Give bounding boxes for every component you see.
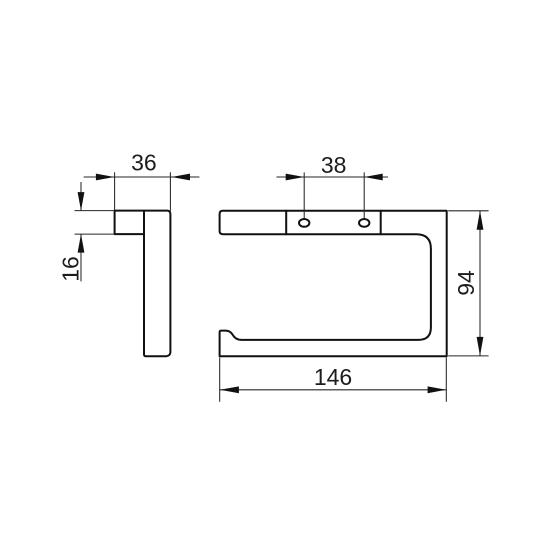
dim 36 dimension line bbox=[84, 176, 200, 178]
dim 16 dimension line lower bbox=[80, 234, 82, 281]
svg-text:94: 94 bbox=[453, 270, 479, 296]
dim 146 dimension line bbox=[220, 389, 447, 391]
dim 146 arrow right bbox=[428, 386, 447, 393]
screw hole left bbox=[299, 219, 309, 227]
dim 36 arrow right bbox=[172, 174, 191, 181]
dim 36 extension line right bbox=[169, 172, 171, 213]
dim 36 arrow left bbox=[96, 174, 115, 181]
dim 16 extension line top bbox=[75, 210, 115, 212]
mounting plate right edge bbox=[380, 211, 382, 235]
mounting plate left edge bbox=[285, 211, 287, 235]
dim 94 arrow up bbox=[477, 211, 484, 230]
dim 38 extension line left bbox=[303, 172, 305, 218]
dim 16 arrow down bbox=[78, 192, 85, 211]
dim 94 extension line top bbox=[448, 210, 488, 212]
dim 38 arrow right bbox=[364, 174, 383, 181]
side view bar outline bbox=[115, 211, 171, 357]
dim 36 extension line left bbox=[114, 172, 116, 210]
svg-text:146: 146 bbox=[314, 364, 352, 390]
dim 146 extension line right bbox=[445, 358, 447, 402]
dim 38 extension line right bbox=[363, 172, 365, 218]
dim 38 dimension line bbox=[276, 176, 388, 178]
dim 94 extension line bottom bbox=[448, 355, 488, 357]
dim 94 arrow down bbox=[477, 337, 484, 356]
dim 94 dimension line bbox=[479, 211, 481, 356]
dim 16 arrow up bbox=[78, 234, 85, 253]
dim 146 extension line left bbox=[219, 358, 221, 402]
dim 146 arrow left bbox=[220, 386, 239, 393]
dim 16 dimension line upper bbox=[80, 182, 82, 211]
side view wall plate bbox=[115, 211, 144, 235]
screw hole right bbox=[359, 219, 369, 227]
svg-text:38: 38 bbox=[321, 152, 347, 178]
front view C-shaped holder outline bbox=[220, 211, 447, 357]
dim 38 arrow left bbox=[286, 174, 305, 181]
svg-text:36: 36 bbox=[131, 150, 157, 176]
svg-text:16: 16 bbox=[57, 256, 83, 282]
dim 16 extension line bottom bbox=[75, 233, 115, 235]
